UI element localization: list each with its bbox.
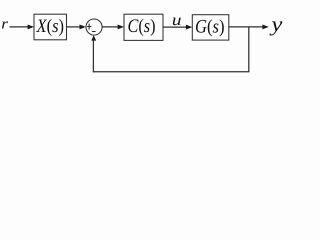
wire summer to C(s) bbox=[102, 26, 118, 28]
svg-text:u: u bbox=[172, 12, 182, 29]
arrowhead into C(s) bbox=[118, 24, 124, 29]
block C(s) bbox=[124, 14, 163, 40]
svg-text:r: r bbox=[1, 17, 8, 33]
arrowhead into X(s) bbox=[28, 24, 34, 29]
svg-text:y: y bbox=[269, 12, 283, 36]
branch junction down from output bbox=[248, 27, 250, 72]
feedback bottom wire bbox=[93, 71, 250, 73]
wire r to X(s) bbox=[10, 26, 29, 28]
arrowhead into G(s) bbox=[186, 25, 192, 30]
block X(s) bbox=[34, 14, 67, 40]
feedback riser wire bbox=[92, 40, 94, 73]
svg-text:G(s): G(s) bbox=[195, 16, 225, 37]
block G(s) bbox=[192, 15, 229, 40]
wire C(s) to G(s) bbox=[163, 26, 187, 28]
minus sign bbox=[92, 30, 96, 32]
arrowhead into summer bbox=[80, 24, 86, 29]
wire G(s) to output y bbox=[229, 26, 264, 28]
summing junction bbox=[86, 19, 102, 35]
plus sign bbox=[87, 24, 91, 30]
svg-text:X(s): X(s) bbox=[36, 16, 64, 37]
arrowhead to y bbox=[262, 24, 268, 29]
svg-text:C(s): C(s) bbox=[128, 16, 156, 37]
wire X(s) to summer bbox=[67, 26, 81, 28]
arrowhead into summer bottom bbox=[91, 35, 96, 40]
